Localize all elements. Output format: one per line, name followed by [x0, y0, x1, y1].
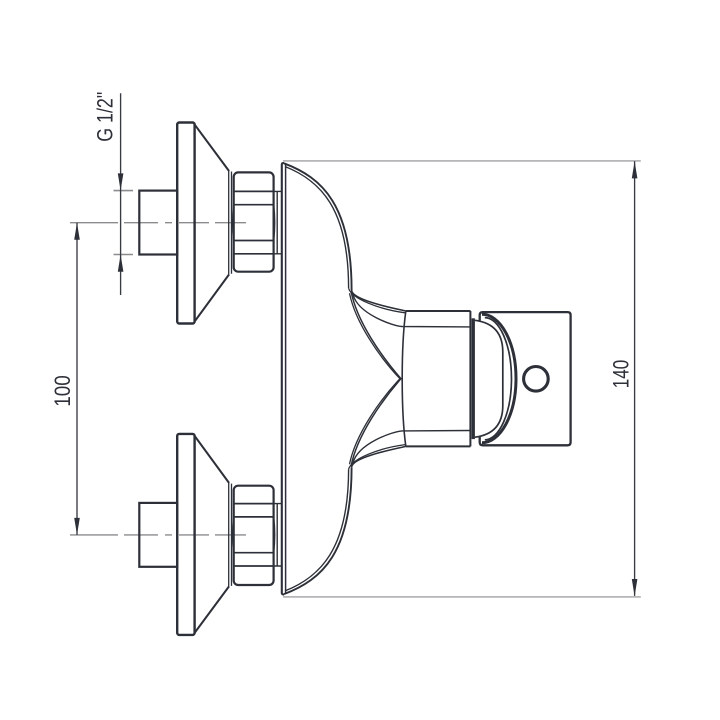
pipe stub top — [139, 191, 177, 255]
cartridge block inner bottom line — [353, 431, 471, 463]
collar lines bottom connector — [229, 482, 232, 587]
cartridge block right edge — [469, 311, 471, 446]
cartridge block inner top line — [353, 295, 471, 327]
wall plate outer edge — [282, 163, 284, 594]
100 dimension line — [76, 223, 78, 535]
hex nut top — [234, 172, 274, 271]
boss top horizontals — [274, 191, 281, 253]
hex nut bottom middle bulge right — [274, 517, 275, 553]
tick top of stub (G 1/2 dim) — [114, 190, 134, 192]
bottom shoulder inner — [349, 445, 405, 470]
bottom swoosh outer — [284, 467, 352, 594]
handle plate — [480, 312, 571, 445]
hex nut bottom middle bulge left — [233, 517, 234, 553]
top shoulder outer — [352, 290, 406, 311]
cone lower diagonal top connector — [195, 275, 229, 322]
handle cylinder profile — [475, 320, 503, 437]
140 dimension line — [634, 161, 636, 596]
hex nut bottom facet lines — [234, 504, 274, 566]
svg-text:100: 100 — [50, 375, 75, 407]
cartridge block top edge — [406, 310, 471, 312]
boss bottom horizontals — [274, 504, 281, 566]
hex nut top facet lines — [234, 191, 274, 253]
handle indicator circle — [524, 367, 549, 392]
top swoosh inner — [285, 167, 349, 289]
tick bottom of stub (G 1/2 dim) — [114, 254, 134, 256]
100 arrow down — [74, 518, 80, 535]
140 arrow up — [632, 161, 638, 178]
collar lines top connector — [229, 170, 232, 275]
extension line bottom (140 dim) — [283, 596, 641, 598]
100 arrow up — [74, 223, 80, 240]
handle dome inner arc — [485, 318, 512, 440]
G 1/2 dimension line — [120, 93, 122, 295]
cartridge block left edge — [402, 311, 406, 446]
cone upper diagonal bottom connector — [195, 586, 229, 633]
boss edge top — [276, 191, 278, 253]
hex nut top middle bulge right — [274, 205, 275, 241]
cone upper diagonal top connector — [195, 125, 229, 172]
handle dome outer arc — [482, 314, 516, 442]
bottom swoosh inner — [285, 469, 349, 591]
flange plate bottom — [177, 434, 194, 635]
centerline top inlet — [70, 222, 246, 224]
hex nut bottom — [234, 486, 274, 585]
bottom neck diagonal inner — [350, 378, 401, 465]
boss edge bottom — [276, 504, 278, 566]
hex nut top middle bulge left — [233, 205, 234, 241]
cone lower diagonal bottom connector — [195, 436, 229, 483]
top swoosh outer — [284, 163, 352, 290]
flange plate top — [177, 123, 194, 324]
wall plate inner edge — [285, 165, 287, 594]
svg-text:G 1/2": G 1/2" — [93, 92, 118, 142]
extension line top (140 dim) — [283, 160, 641, 162]
top neck diagonal inner — [350, 293, 401, 380]
bottom neck diagonal outer — [351, 378, 401, 466]
centerline bottom inlet — [70, 534, 246, 536]
G 1/2 arrow up — [118, 255, 124, 272]
G 1/2 arrow down — [118, 173, 124, 190]
pipe stub bottom — [139, 503, 177, 567]
svg-text:140: 140 — [608, 360, 633, 389]
cartridge block bottom edge — [406, 445, 471, 447]
top neck diagonal outer — [351, 291, 401, 379]
bottom shoulder outer — [352, 446, 406, 467]
140 arrow down — [632, 579, 638, 596]
junction bar — [472, 318, 475, 439]
top shoulder inner — [349, 288, 405, 313]
